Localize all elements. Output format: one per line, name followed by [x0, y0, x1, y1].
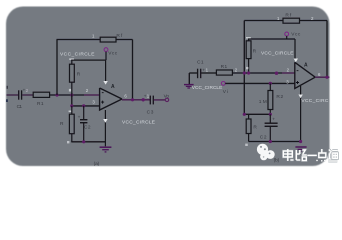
wire R1 to op-amp pin 2 — [232, 72, 294, 74]
svg-text:Vcc: Vcc — [291, 31, 301, 37]
wire R1 to op-amp pin 2 — [50, 94, 100, 96]
node junction feedback/output — [131, 98, 134, 101]
power port VCC_CIRCLE bar — [246, 37, 251, 38]
svg-text:R1: R1 — [221, 64, 228, 70]
resistor R (lower) — [246, 114, 251, 141]
node junction pin4 bottom — [299, 140, 302, 143]
power port Vcc circle — [104, 48, 108, 60]
capacitor C1 — [198, 69, 201, 79]
svg-text:Vo: Vo — [164, 93, 170, 99]
resistor R2 — [268, 83, 273, 114]
svg-text:C1: C1 — [17, 104, 23, 110]
wire lower tap across to R2 — [244, 113, 270, 115]
wire pin 3 — [72, 95, 100, 106]
op-amp plus mark — [101, 101, 104, 104]
resistor R1 — [216, 70, 232, 75]
ground bottom right — [295, 147, 306, 151]
terminal Vo circle — [165, 98, 168, 101]
svg-text:(a): (a) — [94, 161, 100, 167]
wire C3 to Vo terminal — [154, 99, 166, 101]
pin 4 arrow — [103, 119, 107, 123]
node junction R2 tap — [269, 82, 272, 85]
wire input branch corner — [189, 73, 198, 84]
capacitor C1 — [19, 90, 22, 99]
svg-text:R: R — [253, 49, 257, 55]
node junction pin3 corner — [70, 104, 73, 107]
svg-text:R: R — [253, 124, 257, 130]
pin 7 arrow — [103, 81, 107, 85]
node junction at feedback tap — [55, 93, 58, 96]
wire C1 to R1 — [201, 72, 216, 74]
resistor R1 — [33, 92, 49, 97]
pin mark white above bias tap — [246, 67, 248, 69]
pin number white tick above bias tap — [69, 89, 71, 92]
svg-text:A: A — [304, 62, 308, 68]
svg-text:VCC_CIRCLE: VCC_CIRCLE — [122, 119, 155, 125]
capacitor C2 — [265, 114, 278, 141]
op-amp A — [100, 88, 122, 110]
ground — [100, 147, 112, 152]
svg-text:R1: R1 — [37, 101, 44, 107]
svg-text:1M: 1M — [259, 99, 267, 105]
pin 4 arrow — [298, 95, 302, 99]
svg-text:VCC_CIRCLE: VCC_CIRCLE — [192, 85, 223, 91]
input terminal marks — [6, 86, 8, 102]
svg-text:R: R — [77, 72, 81, 78]
pin mark white lower R — [67, 141, 69, 143]
node junction C2 bottom — [269, 140, 272, 143]
svg-text:+: + — [78, 115, 81, 120]
resistor Rf — [100, 37, 116, 42]
wire op-amp pin 4 down — [104, 110, 106, 146]
svg-text:+: + — [272, 118, 275, 123]
svg-text:C3: C3 — [147, 109, 154, 115]
node junction R2 bottom — [269, 113, 272, 116]
wire Vcc rail right — [249, 38, 296, 40]
watermark text 电路一点通 — [283, 149, 338, 161]
power port Vcc circle — [285, 32, 289, 39]
wire Vi to op-amp pin 3 — [225, 82, 295, 84]
pin 7 arrow — [294, 59, 298, 63]
wire input to C1 — [7, 94, 19, 96]
gray schematic panel — [6, 7, 330, 167]
resistor Rf — [283, 18, 300, 23]
node junction C2 tap — [82, 104, 85, 107]
capacitor C3 — [150, 96, 153, 105]
svg-text:Vi: Vi — [223, 89, 228, 95]
C1 plus mark and pin 2 label — [23, 88, 29, 93]
wire pin 7 supply drop — [105, 60, 107, 81]
svg-text:VCC_CIRCLE: VCC_CIRCLE — [60, 52, 95, 58]
node junction at bias tap — [70, 93, 73, 96]
capacitor C2 — [80, 106, 87, 142]
node junction C3 left — [142, 98, 145, 101]
svg-text:VCC_CIRCLE: VCC_CIRCLE — [261, 51, 294, 57]
resistor R (upper bias) — [70, 60, 75, 95]
C1 plus mark and pin 1 — [202, 67, 208, 72]
op-amp minus mark — [297, 69, 299, 72]
watermark logo circles — [257, 144, 275, 161]
wire pin 7 supply drop — [294, 39, 296, 59]
svg-text:Rf: Rf — [116, 33, 122, 39]
node junction output feedback — [325, 76, 328, 79]
op-amp A — [295, 62, 315, 88]
terminal Vi circle — [221, 82, 225, 86]
svg-text:2: 2 — [26, 88, 29, 93]
wire output — [315, 76, 329, 78]
wire Rf right down to output node — [116, 40, 133, 100]
ground input — [184, 85, 194, 88]
power port VCC_CIRCLE bar — [69, 59, 74, 60]
node junction mid — [275, 72, 278, 75]
wire C1 to R1 — [22, 94, 33, 96]
svg-text:R2: R2 — [276, 94, 283, 100]
pin mark white lower R — [245, 144, 248, 146]
op-amp plus mark — [296, 81, 299, 84]
node junction C2 bottom — [82, 140, 85, 143]
wire op-amp pin 4 down — [300, 86, 302, 142]
wire Vcc rail — [71, 59, 105, 61]
wire output to C3 — [122, 99, 150, 101]
node junction corner — [243, 113, 246, 116]
svg-text:Vcc: Vcc — [108, 50, 118, 56]
wire bottom rail to ground — [71, 141, 105, 143]
node junction feedback tap — [243, 71, 246, 74]
op-amp minus mark — [102, 91, 104, 94]
svg-text:Rf: Rf — [285, 13, 291, 19]
wire bottom rail — [249, 141, 301, 143]
svg-text:C2: C2 — [260, 135, 267, 141]
svg-text:(b): (b) — [274, 158, 280, 164]
svg-text:C2: C2 — [84, 124, 91, 130]
wire top feedback rail — [244, 21, 327, 115]
node junction bias tap — [247, 71, 250, 74]
C3 plus mark and pin 1 — [144, 93, 150, 98]
wire feedback: up and across top — [57, 40, 101, 96]
svg-text:C1: C1 — [197, 59, 204, 65]
svg-text:R: R — [60, 121, 64, 127]
svg-text:A: A — [111, 84, 115, 90]
resistor R (lower bias) — [69, 106, 75, 142]
resistor R (upper bias) — [246, 38, 251, 73]
svg-text:VCC_CIRC: VCC_CIRC — [301, 98, 329, 104]
